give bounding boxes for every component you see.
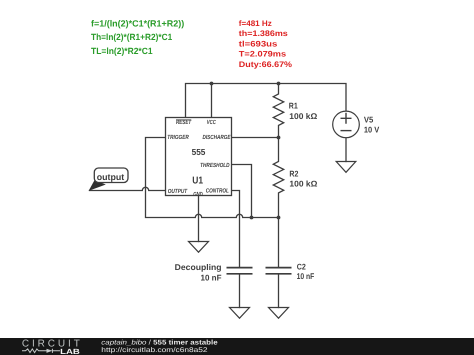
- svg-text:http://circuitlab.com/c6n8a52: http://circuitlab.com/c6n8a52: [101, 347, 208, 354]
- svg-text:TRIGGER: TRIGGER: [167, 134, 189, 141]
- svg-text:C2: C2: [297, 262, 306, 272]
- svg-text:OUTPUT: OUTPUT: [168, 188, 189, 195]
- svg-text:10 nF: 10 nF: [201, 272, 222, 282]
- svg-text:V5: V5: [364, 114, 374, 124]
- svg-text:100 kΩ: 100 kΩ: [289, 111, 317, 121]
- svg-text:LAB: LAB: [60, 347, 80, 355]
- svg-text:TL=ln(2)*R2*C1: TL=ln(2)*R2*C1: [91, 46, 153, 56]
- svg-text:T=2.079ms: T=2.079ms: [239, 50, 287, 59]
- svg-text:R2: R2: [289, 168, 298, 178]
- svg-text:f=481 Hz: f=481 Hz: [239, 19, 272, 28]
- svg-text:output: output: [97, 172, 125, 182]
- svg-text:R1: R1: [289, 100, 298, 110]
- svg-text:GND: GND: [193, 191, 203, 198]
- svg-text:555: 555: [192, 147, 206, 157]
- svg-text:DISCHARGE: DISCHARGE: [203, 134, 232, 141]
- svg-text:Duty:66.67%: Duty:66.67%: [239, 60, 292, 69]
- svg-text:tl=693us: tl=693us: [239, 39, 278, 48]
- svg-text:CONTROL: CONTROL: [206, 188, 229, 195]
- svg-text:captain_bibo / 555 timer astab: captain_bibo / 555 timer astable: [101, 339, 218, 346]
- svg-text:U1: U1: [192, 175, 203, 186]
- svg-text:Th=ln(2)*(R1+R2)*C1: Th=ln(2)*(R1+R2)*C1: [91, 32, 172, 42]
- svg-text:10 V: 10 V: [364, 125, 380, 135]
- svg-text:VCC: VCC: [207, 119, 216, 126]
- svg-text:10 nF: 10 nF: [297, 271, 315, 281]
- svg-text:th=1.386ms: th=1.386ms: [239, 29, 289, 38]
- svg-text:Decoupling: Decoupling: [175, 262, 222, 272]
- svg-text:THRESHOLD: THRESHOLD: [200, 162, 230, 169]
- svg-text:f=1/(ln(2)*C1*(R1+R2)): f=1/(ln(2)*C1*(R1+R2)): [91, 18, 184, 28]
- svg-text:100 kΩ: 100 kΩ: [289, 178, 317, 188]
